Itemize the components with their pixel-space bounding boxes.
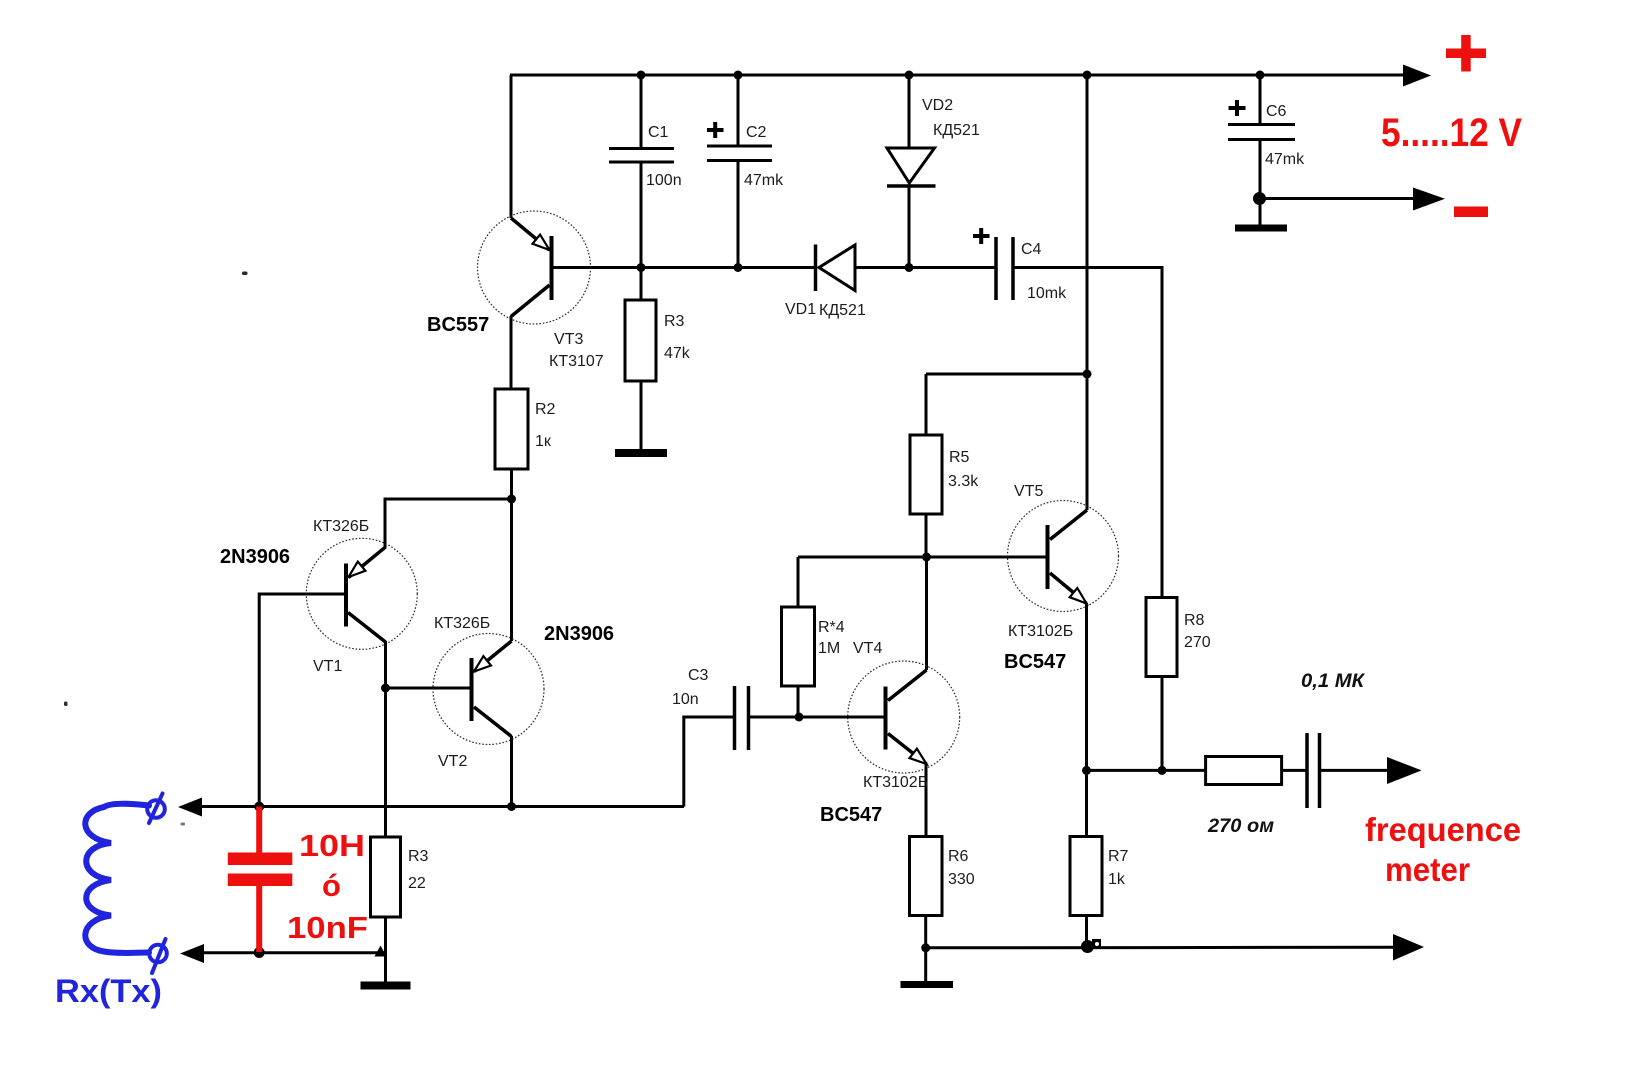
svg-text:3.3k: 3.3k [948,473,979,490]
capacitor C6 [1228,75,1295,225]
wire emitter branch to VT1 [385,499,512,548]
node junction VT2 collector / feedback wire [507,802,516,811]
transistor VT4 [848,661,960,773]
capacitor C3 [684,686,884,807]
svg-text:КТ3102Б: КТ3102Б [863,774,928,791]
label plus C4 [973,228,990,244]
svg-text:BC557: BC557 [427,314,489,336]
wire bottom output line [926,946,1395,950]
transistor VT5 [1008,501,1119,612]
wire VT2 collector down to bottom node [510,736,513,807]
node junction R5 / VT4 collector / VT5 base [922,553,931,562]
resistor 270 om horizontal [1206,757,1307,785]
capacitor C1 [609,75,674,268]
svg-text:VT4: VT4 [853,640,882,657]
svg-text:R2: R2 [535,401,556,418]
svg-text:R5: R5 [949,449,970,466]
diode VD1 [816,245,856,292]
resistor R2 [495,389,528,469]
diode VD2 [887,75,936,268]
label red minus [1454,207,1488,218]
svg-text:2N3906: 2N3906 [220,546,290,568]
node junction C2/top rail [734,71,743,80]
node junction VD2 bottom [905,263,914,272]
node junction C6/top rail [1256,71,1265,80]
node junction red capacitor bottom [254,947,265,958]
svg-text:VT5: VT5 [1014,483,1043,500]
wire VT5 emitter to R7 [1085,603,1088,837]
node junction C1/top rail [637,71,646,80]
transistor VT2 [433,634,544,745]
svg-text:КД521: КД521 [819,302,866,319]
wire top supply rail [510,74,1408,77]
ground under R6 [901,948,954,985]
resistor R6 [910,837,943,949]
svg-text:2N3906: 2N3906 [544,623,614,645]
node junction C1 bottom [637,263,646,272]
capacitor C4 [996,237,1013,300]
svg-text:5.....12 V: 5.....12 V [1381,111,1522,155]
inductor Rx coil [85,794,167,974]
svg-text:10mk: 10mk [1027,285,1067,302]
stray mark 1 [242,272,248,276]
label plus C6 [1229,100,1246,116]
wire top rail to VT5 collector [1086,75,1089,510]
wire VT5 base [798,556,1046,559]
svg-text:R3: R3 [408,848,429,865]
svg-text:1к: 1к [535,433,552,450]
stray mark 2 [64,702,68,707]
svg-text:frequence: frequence [1365,811,1521,848]
svg-text:R7: R7 [1108,848,1129,865]
node junction red capacitor top [254,802,264,812]
svg-text:C2: C2 [746,124,767,141]
node minus arrow [1413,188,1445,211]
svg-text:VD2: VD2 [922,97,953,114]
node junction C3 / R*4 / VT4 base [795,713,804,722]
node junction C6 / minus wire [1253,192,1266,205]
svg-text:10nF: 10nF [287,910,368,945]
wire minus output [1260,197,1415,200]
node top rail arrow to + terminal [1403,65,1431,87]
svg-text:Rx(Tx): Rx(Tx) [55,973,162,1009]
svg-text:C6: C6 [1266,103,1287,120]
node junction R2/VT1/VT2 [507,495,516,504]
wire VT1 base to left node [259,594,344,806]
node junction R5 wire / VT5 collector line [1083,370,1092,379]
svg-text:BC547: BC547 [820,804,882,826]
svg-text:C1: C1 [648,124,669,141]
wire left pickup bottom [202,951,386,954]
node output arrow [1387,757,1422,784]
resistor R3 22 [371,837,401,982]
svg-text:R8: R8 [1184,612,1205,629]
resistor R*4 [782,557,815,717]
svg-text:R3: R3 [664,313,685,330]
wire C4 to R8 [1013,268,1162,599]
capacitor 0,1 MK output [1307,733,1390,808]
svg-text:BC547: BC547 [1004,651,1066,673]
svg-text:0,1 МК: 0,1 МК [1301,671,1365,692]
svg-text:270: 270 [1184,634,1211,651]
svg-text:КТ3107: КТ3107 [549,353,604,370]
node bottom output arrow [1393,934,1424,961]
stray mark 3 [181,823,186,826]
svg-text:КТ3102Б: КТ3102Б [1008,623,1073,640]
svg-text:330: 330 [948,871,975,888]
node junction C2 bottom [734,263,743,272]
wire VT4 collector [925,557,928,670]
node arrow left top [178,798,202,817]
wire to VT2 base [386,687,471,690]
label red plus [1446,35,1486,72]
svg-text:meter: meter [1385,851,1470,888]
resistor R5 [910,374,942,557]
svg-text:10n: 10n [672,691,699,708]
node junction VT1 collector / VT2 base [381,684,390,693]
ground under R3 47k [615,449,667,457]
svg-text:R*4: R*4 [818,619,845,636]
svg-text:100n: 100n [646,172,682,189]
svg-text:R6: R6 [948,848,969,865]
capacitor red 10H/10nF [228,807,292,953]
wire VT4 emitter to R6 [925,763,928,837]
svg-text:10H: 10H [299,828,365,863]
svg-text:VT2: VT2 [438,753,467,770]
svg-text:47mk: 47mk [744,172,784,189]
transistor VT3 [478,211,591,324]
wire R5 top to collector line [926,373,1087,376]
svg-text:VT3: VT3 [554,331,583,348]
svg-text:22: 22 [408,875,426,892]
capacitor C2 [707,75,772,268]
resistor R8 [1146,598,1177,771]
resistor R3 47k [625,268,656,450]
label plus C2 [707,122,724,138]
wire VD1 to C4 [855,266,996,269]
node small triangle junction [375,946,387,957]
wire output line [1087,769,1206,772]
wire VT1 collector to VT2 base [384,641,387,837]
svg-text:КТ326Б: КТ326Б [434,615,490,632]
wire VT3 base to VD1 [552,266,817,269]
svg-text:КТ326Б: КТ326Б [313,518,369,535]
node junction VD2/top rail [905,71,914,80]
svg-text:VD1: VD1 [785,301,816,318]
wire R2 to VT1/VT2 emitters junction [510,469,513,641]
wire VT3 collector to R2 [510,316,513,390]
svg-text:1k: 1k [1108,871,1126,888]
svg-text:47mk: 47mk [1265,151,1305,168]
node junction VT5 collector line/top rail [1083,71,1092,80]
transistor VT1 [306,538,417,649]
svg-text:C3: C3 [688,667,709,684]
node junction R6 bottom [921,943,930,952]
ground bottom left [361,982,411,990]
ground under C6 [1235,225,1287,232]
svg-text:VT1: VT1 [313,658,342,675]
node junction VT5 emitter / output wire [1082,766,1091,775]
resistor R7 [1070,837,1102,949]
svg-text:КД521: КД521 [933,122,980,139]
wire VT3 emitter to top rail [510,75,513,218]
svg-text:47k: 47k [664,345,691,362]
wire left pickup top (to oscillator) [202,805,684,808]
svg-text:C4: C4 [1021,241,1042,258]
svg-text:270 ом: 270 ом [1207,816,1274,837]
node junction R8 bottom / output [1158,766,1167,775]
node arrow left bottom [180,944,204,963]
svg-text:ó: ó [322,868,341,903]
svg-text:1M: 1M [818,640,840,657]
node junction R7 bottom blob [1081,939,1101,953]
